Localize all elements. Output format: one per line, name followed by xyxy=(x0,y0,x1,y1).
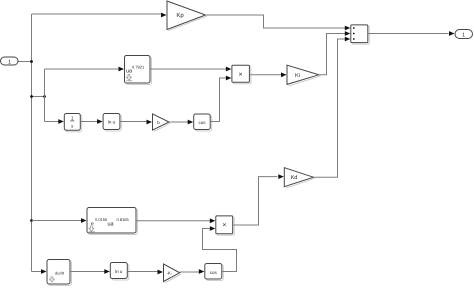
wire: sum to outport xyxy=(368,33,449,35)
wire: gain b to cos xyxy=(169,121,190,123)
arrowhead into du/dt xyxy=(41,269,47,274)
wire: ln to gain -K- xyxy=(127,271,158,273)
svg-text:×: × xyxy=(239,71,243,78)
gain Ki xyxy=(289,76,321,86)
node C: jog right junction xyxy=(43,95,46,98)
wire: trunk to exp block xyxy=(32,220,83,222)
exp block e^0.0156 ua^0.8165 xyxy=(89,209,138,235)
inport 1 xyxy=(1,57,19,65)
arrowhead product top input 1 xyxy=(226,67,232,72)
arrowhead product top input 2 xyxy=(226,76,232,81)
arrowhead into ua block xyxy=(119,67,125,72)
log block ln u (middle) xyxy=(105,115,122,131)
svg-text:-K-: -K- xyxy=(167,270,173,275)
arrowhead sum input 2 xyxy=(345,31,351,36)
wire: cos bottom zigzag to product input 2 xyxy=(203,229,237,272)
arrowhead sum input 1 xyxy=(345,26,351,31)
arrowhead into exp block xyxy=(81,218,87,223)
wire: inport to main junction xyxy=(18,61,32,63)
wire: product bottom to Kd xyxy=(233,177,278,225)
gain b xyxy=(154,123,171,132)
arrowhead into gain b xyxy=(147,120,153,125)
svg-text:du/dt: du/dt xyxy=(55,271,65,276)
arrowhead into 1/s xyxy=(58,119,64,124)
arrowhead into outport xyxy=(449,31,455,36)
arrowhead into Kp xyxy=(161,13,167,18)
integrator 1/s xyxy=(66,115,82,132)
arrowhead into Kd xyxy=(278,174,284,179)
cos block (middle) xyxy=(195,116,212,132)
arrowhead into ln (middle) xyxy=(97,119,103,124)
wire: second vertical trunk xyxy=(44,69,46,122)
svg-text:cos: cos xyxy=(210,270,218,275)
wire: Ki output up to sum xyxy=(319,34,346,75)
svg-text:1: 1 xyxy=(462,33,465,39)
arrowhead product bottom input 2 xyxy=(210,226,216,231)
wire: exp to product (bottom) xyxy=(136,220,212,222)
wire: trunk top to Kp gain xyxy=(32,13,162,15)
svg-text:1: 1 xyxy=(8,60,11,66)
svg-text:Kd: Kd xyxy=(291,175,298,181)
wire: ua output to product xyxy=(150,68,227,70)
arrowhead sum input 3 xyxy=(345,37,351,42)
wire: cos up to product input 2 xyxy=(210,78,226,122)
wire: jog to second trunk xyxy=(32,96,45,98)
gain Kp xyxy=(169,16,208,31)
arrowhead into cos (bottom) xyxy=(199,269,205,274)
product X (bottom) xyxy=(217,217,234,235)
outport 1 xyxy=(455,30,473,39)
cos block (bottom) xyxy=(206,265,223,281)
wire: trunk bottom to du/dt xyxy=(32,271,43,273)
arrowhead into ln (bottom) xyxy=(104,269,110,274)
svg-text:ln u: ln u xyxy=(115,269,123,274)
node D: junction to exp block xyxy=(30,219,33,222)
wire: -K- to cos (bottom) xyxy=(180,271,201,273)
wire: product to gain Ki xyxy=(249,74,282,76)
svg-text:Ki: Ki xyxy=(295,73,300,79)
wire: main vertical trunk xyxy=(31,14,33,272)
wire: to power block ua xyxy=(45,68,120,70)
wire: du/dt to ln (bottom) xyxy=(70,271,106,273)
svg-text:cos: cos xyxy=(198,120,206,125)
node B: jog left junction xyxy=(30,95,33,98)
wire: Kp output to sum xyxy=(206,15,346,28)
svg-text:0.8165: 0.8165 xyxy=(117,217,130,222)
svg-text:0.0156: 0.0156 xyxy=(95,217,108,222)
wire: 1/s to ln xyxy=(80,121,98,123)
arrowhead into cos (middle) xyxy=(188,120,194,125)
wire: Kd output up to sum xyxy=(313,39,345,177)
arrowhead into Ki xyxy=(281,72,287,77)
svg-text:Kp: Kp xyxy=(176,12,184,19)
node A: junction input xyxy=(30,60,33,63)
wire: to integrator 1/s xyxy=(45,121,60,123)
power block ua^0.7921 xyxy=(126,57,152,85)
arrowhead product bottom input 1 xyxy=(210,218,216,223)
gain Kd xyxy=(286,178,315,188)
svg-text:ua: ua xyxy=(108,222,115,228)
wire: ln to gain b xyxy=(120,121,148,123)
log block ln u (bottom) xyxy=(112,264,129,280)
sum block xyxy=(352,26,369,44)
svg-text:0.7921: 0.7921 xyxy=(132,65,145,70)
derivative block du/dt xyxy=(49,261,72,286)
arrowhead into -K- xyxy=(158,270,164,275)
svg-text:×: × xyxy=(222,222,226,229)
product X (top) xyxy=(233,67,251,84)
gain -K- xyxy=(165,274,181,283)
sum sign marks xyxy=(353,27,355,29)
svg-text:ln u: ln u xyxy=(108,120,116,125)
